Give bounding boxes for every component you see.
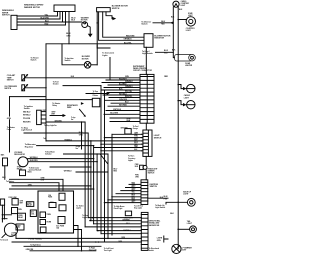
windshield wiper switch [11,15,17,29]
svg-text:RED/GRN: RED/GRN [23,121,31,123]
windshield wiper/washer motor [54,5,75,12]
svg-text:GRN/ORN: GRN/ORN [55,120,62,122]
acc contact box [16,224,24,230]
svg-text:GRN/ORN: GRN/ORN [119,99,128,101]
wire blower motor left lead [62,44,84,65]
svg-text:To Back UpLight Switch: To Back UpLight Switch [155,205,165,209]
wire ignition pin 3 [121,190,141,192]
node y246 join [77,246,79,248]
svg-text:BLU/GRN: BLU/GRN [66,33,71,37]
node y250 join [81,250,83,252]
node backup trunk [177,202,179,204]
svg-text:WHT/RED: WHT/RED [119,105,128,107]
washer pump motor [82,22,88,28]
wire ammeter out2 [28,161,97,163]
wire cab light 1 feed [178,85,183,89]
blower motor resistor [144,34,153,48]
accessory box [20,170,26,176]
node L4 join [93,188,95,190]
wire blower motor right lead [91,64,97,66]
wire oil switch to trunk [25,87,46,89]
svg-text:BLU/ORN: BLU/ORN [41,17,50,19]
wire BLU/RED to cigar lighter [156,52,175,57]
node blower feed junction [96,22,98,24]
wire cab light 2 feed [178,101,183,105]
wire light switch pin 5 stub [142,147,143,149]
horn button box [12,208,18,214]
svg-text:GRN: GRN [7,118,12,120]
wire corridor v104 [104,90,106,242]
wire washer pump to ground [87,26,90,34]
svg-text:HORNRELAY: HORNRELAY [18,215,23,219]
wire light switch pin 3 stub [142,140,143,142]
wire diagonal corridor [101,155,108,164]
svg-text:GRN/RED: GRN/RED [122,219,130,221]
wire bottom y242 long [12,241,141,243]
cigar lighter [175,54,192,61]
svg-text:Y BLK: Y BLK [27,172,33,174]
wire y154 [64,153,109,155]
wire ignition pin 5 [112,196,141,198]
node batt col2 [2,218,4,220]
horn relay box 2 [18,213,26,220]
wire YEL wiper sw to motor [17,12,58,17]
wire ignition out right [148,197,168,199]
wire bottom y238 long [16,237,141,239]
wire battery feed L2 [10,183,60,191]
wire GRN left vertical [9,97,11,152]
svg-text:DOMELIGHT: DOMELIGHT [188,13,193,17]
wire column pin 3 [94,223,142,225]
resistance wire arrow [80,109,86,116]
node pin6 tap [100,150,102,152]
wire connector pin 5 [104,87,140,89]
courtesy light bulb [173,1,179,7]
wire connector pin 4 [108,84,140,86]
wire connector pin 8 [103,94,140,96]
wire ammeter out1 [28,158,94,160]
wire light switch pin 4 stub [142,143,143,145]
node cab light 2 tap [177,100,179,102]
svg-text:PPL/ORN: PPL/ORN [23,118,31,120]
node tail tap [177,229,179,231]
node ign pin6 tap [107,199,109,201]
svg-text:To FuelSender: To FuelSender [53,82,59,86]
node oil trunk [45,87,47,89]
wire light sw pin1 [112,133,142,135]
svg-text:WHT/BLU: WHT/BLU [64,171,73,173]
svg-text:L/BLU WHT: L/BLU WHT [124,218,133,220]
wire dome light feed [153,22,173,24]
wire connector pin 7 [107,92,140,94]
svg-text:To High Beam: To High Beam [30,244,41,246]
node y242 a [95,241,97,243]
node pin2 tap [104,137,106,139]
wire light sw to dimmer [145,156,147,165]
wire flasher pin4 [41,122,46,124]
wire dome light feed 2 [178,19,186,21]
svg-text:GRNWHT: GRNWHT [20,200,23,204]
fuse 2 [49,203,56,208]
arrow cluster feed [107,92,110,95]
left edge box [0,199,4,205]
wire column pin 4 [85,226,141,228]
wire flasher pin3 [41,118,46,120]
instrument panel printed circuit connector [140,74,154,123]
wire fuse out 2 [74,230,82,251]
wire BLU wiper sw to washer pump [17,12,82,23]
node y122 tap [81,121,83,123]
wire RED wiper sw to motor [17,12,66,26]
wire light sw pin2 [105,137,142,139]
fuse 6 [58,217,65,224]
wire corridor v110 upper [109,58,111,81]
wire resistance feed [86,93,108,95]
wire light switch pin 1 stub [142,133,143,135]
wire connector pin 15 [110,118,140,122]
marker bracket wire [164,236,168,242]
node amm2 [96,161,98,163]
node column pin1 b [92,217,94,219]
coil contact box [30,210,36,217]
label fuse panel bg [28,236,47,241]
svg-text:BLU/YEL: BLU/YEL [124,42,133,44]
wire BLU/ORN wiper sw to motor [17,12,60,20]
node y145 drop [93,145,95,147]
cab light 2 [187,101,195,109]
wire horn feed y99 [30,99,92,101]
wire ignition pin 2 [126,187,142,189]
cluster stub box [92,98,100,107]
node ign pin5 tap [111,196,113,198]
fuse link box [12,199,18,205]
wire bottom y250 [30,250,96,252]
wire y133 [24,133,88,218]
wire courtesy bulb right leg trunk [177,7,179,249]
svg-text:WHT/BLU: WHT/BLU [23,115,31,117]
wire battery feed L1 [10,179,64,191]
wire light switch pin 6 stub [142,150,143,152]
dome light [186,17,195,26]
wire flasher pin1 [41,111,46,113]
blower motor [84,62,91,69]
indicator stub box [125,211,131,216]
wire to alternator module [50,166,91,168]
wire resistor to connector [145,47,147,74]
headlight dimmer switch [140,165,144,169]
wire connector pin 13 [106,110,140,112]
svg-text:WHT/BLU: WHT/BLU [123,230,131,232]
wire fuel sender [63,85,101,87]
wire corridor v112 [111,134,113,235]
horn relay box [26,202,33,207]
steering connector rungs [141,215,148,249]
wire flasher pin2 [41,114,46,116]
node cab light 1 tap [177,84,179,86]
svg-text:HORNRELAY: HORNRELAY [27,203,32,207]
wire coolant switch to connector [25,77,140,79]
svg-text:RED/YEL: RED/YEL [125,96,132,98]
svg-text:MED BLU: MED BLU [23,111,31,113]
arrow dome feed [170,21,173,24]
wire to ign sw y147 [94,147,142,149]
node batt col1 [2,214,4,216]
wire WHT/BLU y172 [76,171,108,173]
wire tail light feed [178,228,189,230]
wire fuse out 1 [74,226,79,247]
wire connector pin 10 [105,99,140,101]
ignition connector rungs [141,182,148,201]
fuse 5b [40,227,46,233]
back up light [187,198,195,206]
coolant temp switch [22,75,25,81]
cab light 1 [187,84,195,92]
wire batt col1 stub [2,215,11,219]
arrow cab light 2 [183,103,187,106]
wire light sw pin6 [101,150,142,152]
tail light [190,226,197,233]
ground washer motor [88,34,93,37]
wire y116 stub [50,115,63,117]
turn signal flasher [37,110,42,124]
node v91 junction [90,185,92,187]
arrow cab light 1 [183,87,187,90]
wire ignition pin 6 [108,199,141,201]
wire batt col 1 [1,205,3,222]
node pin4 tap [100,143,102,145]
wire left horizontal y96 [10,96,47,98]
wire connector pin 11 [111,102,140,104]
wire connector pin 2 [106,79,140,81]
node rear lights tap [89,220,91,222]
fuse panel [38,191,74,233]
node y167 join [90,166,92,168]
wire column pin 2 [91,220,141,222]
wire light sw pin4 [101,143,142,145]
node y238 corridor [107,238,109,240]
battery [3,158,8,166]
light switch inner wall [143,130,149,156]
oil pressure switch [22,85,25,91]
wire dimmer to ignition [145,170,147,180]
wire left trunk [45,44,47,141]
node amm1 [93,158,95,160]
wire connector pin 9 [109,97,140,99]
wire connector pin 12 [108,105,140,107]
connector arrow blower feed [112,17,116,20]
fuse 1 [59,193,65,200]
light switch [143,130,152,156]
wire v97.1 drop [96,154,98,231]
wire y145 alternator [37,146,94,224]
svg-text:ORN/BLK: ORN/BLK [124,39,133,41]
wire blower sw pin to connector arrow [106,12,112,19]
fuse 5 [40,220,46,225]
wire v90.9 drop [90,141,92,221]
wire y48 stub [97,45,110,48]
wire ORN/BLK blower sw to resistor [99,12,144,41]
node ign pin7 tap [104,202,106,204]
ammeter [18,157,28,167]
fuse 3 [59,205,66,211]
wire back up light feed [166,202,187,204]
wire connector to light switch [145,123,147,130]
wire column pin 6 [101,233,141,235]
wire connector pin 14 [104,113,140,115]
blower motor switch [97,8,111,12]
wire y122 stop light [46,122,85,227]
wire ignition pin 4 [116,193,141,195]
svg-text:DIRECTIONALSIGNAL ANDHAZARD SW: DIRECTIONALSIGNAL ANDHAZARD SW. [149,220,161,227]
wire BLU/YEL long feed to resistor [46,43,144,45]
svg-text:GRN/ORN: GRN/ORN [26,249,34,251]
arrow feed center [81,102,84,105]
fuse 4 [40,212,46,218]
svg-text:RED/ORN: RED/ORN [126,36,135,38]
node y242 b [98,241,100,243]
wire y141 light sw pin3 long [46,140,142,142]
wire BLK/ORN drop [81,122,83,149]
key ground stroke [2,234,6,238]
park/turn light [172,244,181,253]
wire battery feed L4 [10,188,94,190]
node dome/leg junction [177,19,179,21]
wire connector pin 3 [102,82,140,84]
wire batt col 2 [3,205,5,219]
wire battery down [4,166,6,180]
label GRN bg [7,117,12,120]
wire corridor v108 [107,154,109,238]
wire light switch pin 2 stub [142,137,143,139]
wire RED/ORN blower sw to resistor [103,12,144,37]
wire column pin 5 [97,230,141,232]
connector rungs [140,77,154,120]
wire courtesy bulb left leg [172,7,174,52]
wire connector pin 6 [101,89,140,91]
arrow y116 [63,114,67,117]
wire ignition pin 7 [105,202,142,204]
wire ignition pin 1 [129,183,141,185]
node coolant trunk [45,77,47,79]
wire corridor v101 [100,86,102,234]
svg-text:ORN/BLU: ORN/BLU [125,86,133,88]
connector divider [146,74,148,123]
wire key feed down [15,234,17,239]
wire bottom y246 [24,245,101,247]
node y141 drop [90,140,92,142]
ignition key switch [4,223,17,236]
node y154 drop [96,153,98,155]
fuel gauge stub box [125,129,131,134]
ignition switch connector [141,180,148,205]
wire column pin 1 [88,217,141,219]
steering column connector [141,212,148,250]
wire blower sw pin to blower motor [96,12,98,65]
wire BLK wiper motor down [68,12,70,44]
node column pin5 b [97,230,99,232]
wire battery feed L3 [12,185,91,187]
